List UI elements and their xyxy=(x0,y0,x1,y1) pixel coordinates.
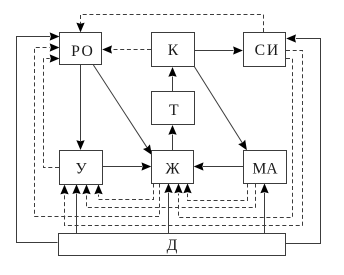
wire: dashed МА to У via bottom bus xyxy=(87,184,256,208)
wire: solid Т to К xyxy=(172,77,174,92)
wire: solid Д to Ж xyxy=(168,193,170,234)
svg-text:У: У xyxy=(75,160,87,177)
wire: solid Д to МА xyxy=(264,193,266,233)
wire: solid Д to У xyxy=(76,194,78,234)
wire: dashed СИ to У via right frame xyxy=(65,51,303,226)
wire: dashed СИ to Ж via right frame xyxy=(179,59,293,218)
wire: solid diagonal РО to Ж xyxy=(93,65,147,148)
wire: solid Ж to Т xyxy=(172,135,174,151)
svg-text:Ж: Ж xyxy=(165,160,180,177)
wire: solid МА to Ж xyxy=(203,166,243,168)
block У xyxy=(60,151,103,185)
block Т xyxy=(152,92,195,125)
wire: dashed feedback СИ to РО along top xyxy=(81,15,264,33)
svg-text:МА: МА xyxy=(252,160,278,177)
wire: solid Д to СИ via right frame xyxy=(286,39,321,244)
svg-text:РО: РО xyxy=(71,43,94,60)
wire: dashed Ж to РО via bottom bus xyxy=(35,48,160,217)
block Д xyxy=(59,234,286,256)
wire: dashed У to РО xyxy=(44,59,60,168)
block СИ xyxy=(244,33,286,67)
svg-text:Д: Д xyxy=(167,237,178,254)
wire: solid diagonal К to МА xyxy=(194,67,242,144)
block РО xyxy=(60,33,102,65)
block МА xyxy=(244,151,287,184)
block Ж xyxy=(152,151,194,184)
block К xyxy=(152,33,195,67)
svg-text:СИ: СИ xyxy=(255,42,280,59)
wire: solid РО to У xyxy=(80,65,82,141)
wire: solid К to СИ xyxy=(195,50,234,52)
wire: solid У to Ж xyxy=(103,166,142,168)
wire: dashed МА to Ж via bottom bus xyxy=(188,184,248,201)
wire: dashed К to РО xyxy=(112,49,152,51)
wire: dashed Ж to У via bottom bus xyxy=(99,184,154,200)
wire: solid Д to РО via left frame xyxy=(17,37,58,243)
svg-text:К: К xyxy=(168,42,179,59)
svg-text:Т: Т xyxy=(169,102,179,119)
